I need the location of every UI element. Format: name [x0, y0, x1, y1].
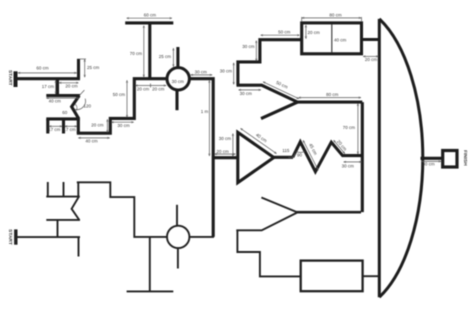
dim 30cm triangle left	[232, 134, 234, 157]
wire: zigzag (mirror)	[72, 182, 80, 220]
wire: fork prong 1	[46, 119, 49, 134]
dim 40cm	[47, 97, 80, 99]
svg-text:20 cm: 20 cm	[216, 149, 229, 154]
svg-text:20 cm: 20 cm	[152, 86, 165, 91]
dim 17cm fork a	[49, 125, 62, 127]
dim 30cm staircase left vert	[233, 63, 235, 84]
svg-text:30 cm: 30 cm	[219, 136, 232, 141]
svg-text:30 cm: 30 cm	[240, 91, 253, 96]
wire: lower funnel bottom diagonal	[236, 212, 297, 230]
wire: 30cm circle to corner	[190, 79, 214, 237]
dim 20cm step	[106, 120, 108, 133]
wire: zigzag 120/60 bend	[72, 96, 80, 134]
svg-text:START: START	[7, 229, 13, 245]
wire: second line (mirror)	[46, 219, 80, 221]
dim 1m	[208, 81, 210, 156]
wire: 40cm bottom run	[77, 79, 167, 134]
svg-text:30 cm: 30 cm	[342, 163, 355, 168]
svg-text:17 cm: 17 cm	[42, 84, 55, 89]
dim 40cm bottom	[79, 137, 110, 139]
svg-text:20 cm: 20 cm	[365, 57, 378, 62]
dim 25cm circle stub	[172, 48, 174, 66]
dim 30cm step	[112, 121, 134, 123]
wire: fork prong 2 (mirror)	[63, 182, 65, 197]
svg-text:40 cm: 40 cm	[85, 139, 98, 144]
wire: 25cm stub above circle	[176, 47, 179, 68]
dim 60cm start	[18, 72, 77, 74]
wire: circle to riser (mirror)	[190, 236, 214, 238]
start terminal bar (mirror)	[14, 229, 17, 244]
wire: staircase lower (mirror)	[237, 230, 301, 276]
svg-text:17 cm: 17 cm	[48, 127, 61, 132]
svg-text:80 cm: 80 cm	[326, 92, 339, 97]
wire: 20cm into triangle	[213, 156, 237, 159]
dim 30cm staircase upper vert	[255, 41, 257, 61]
dim 50cm funnel diagonal	[263, 82, 299, 99]
dim 30cm staircase bottom	[239, 89, 261, 91]
svg-text:17 cm: 17 cm	[63, 127, 76, 132]
process box 80x40	[302, 23, 362, 54]
svg-text:20 cm: 20 cm	[308, 30, 321, 35]
wire: upper funnel lower diagonal	[261, 102, 298, 119]
svg-text:60 cm: 60 cm	[36, 66, 49, 71]
svg-text:30 cm: 30 cm	[242, 44, 255, 49]
dim 20cm resistor tail	[334, 140, 345, 153]
svg-text:20 cm: 20 cm	[91, 123, 104, 128]
wire: fork line (mirror)	[46, 196, 80, 198]
dim 60cm top	[127, 17, 172, 19]
wire: fork prong 1 (mirror)	[47, 182, 49, 197]
dim 45cm resistor	[303, 141, 318, 171]
dimension annotations	[18, 17, 441, 170]
dim 50cm riser	[126, 81, 128, 118]
wire: 70cm right riser	[361, 102, 364, 212]
wire: stub below circle	[175, 90, 178, 110]
circle wheel 30cm	[167, 68, 189, 90]
wire: box to drum (mirror)	[363, 275, 379, 277]
wire: 70cm drop from top bar	[148, 23, 151, 79]
svg-text:80 cm: 80 cm	[329, 12, 342, 17]
process box (mirror)	[301, 261, 363, 292]
svg-text:60: 60	[62, 110, 68, 115]
svg-text:30 cm: 30 cm	[195, 70, 208, 75]
svg-text:30 cm: 30 cm	[172, 79, 185, 84]
wire: 30cm to finish	[421, 157, 443, 160]
top bar 60cm	[125, 21, 173, 24]
svg-text:60 cm: 60 cm	[144, 13, 157, 18]
svg-text:50 cm: 50 cm	[278, 29, 291, 34]
dim 20cm box to drum	[363, 55, 378, 57]
svg-text:40 cm: 40 cm	[255, 132, 268, 143]
svg-text:FINISH: FINISH	[462, 150, 468, 166]
svg-text:20 cm: 20 cm	[65, 84, 78, 89]
lower mirrored structure (thin)	[16, 182, 379, 292]
wire: lower funnel output (mirror 80cm)	[297, 211, 362, 214]
wire: staircase upper	[238, 40, 301, 85]
svg-text:90: 90	[297, 153, 303, 158]
wire: start line (mirror)	[16, 236, 80, 238]
svg-text:30 cm: 30 cm	[220, 68, 233, 73]
svg-text:50 cm: 50 cm	[113, 92, 126, 97]
bottom bar (mirror)	[127, 290, 174, 292]
finish box	[443, 151, 457, 168]
dim 17cm fork b	[65, 125, 77, 127]
wire: fork prong 2	[62, 119, 65, 134]
angle 60 arc	[75, 104, 77, 110]
svg-text:20 cm: 20 cm	[137, 86, 150, 91]
wire: stub (mirror)	[57, 220, 59, 237]
svg-text:1 m: 1 m	[201, 109, 209, 114]
dim 70cm	[143, 26, 145, 77]
dim 30cm finish	[422, 160, 441, 162]
start terminal bar	[14, 71, 18, 87]
svg-text:70 cm: 70 cm	[130, 51, 143, 56]
wire: fork line	[46, 117, 80, 120]
dim 20cm before triangle	[215, 153, 236, 155]
svg-text:25 cm: 25 cm	[87, 65, 100, 70]
dim 40cm triangle hyp	[241, 129, 277, 154]
wire: lower funnel top diagonal	[261, 198, 297, 213]
wire: 60cm start line	[16, 77, 81, 80]
wire: 40cm second line	[46, 94, 80, 97]
angle 90 arc	[296, 151, 305, 152]
wire: 20cm box to drum	[362, 38, 379, 41]
wire: stub below circle (mirror)	[177, 248, 179, 269]
circle wheel (mirror)	[167, 226, 189, 248]
svg-text:25 cm: 25 cm	[159, 54, 172, 59]
wire: 25cm stub down (mirror)	[78, 237, 80, 256]
dim 20cm	[59, 82, 78, 84]
svg-text:40 cm: 40 cm	[49, 99, 62, 104]
dim 20cm 20cm pair	[136, 85, 167, 87]
dim 80cm box	[302, 17, 361, 19]
wire: upper funnel top diagonal 50cm	[237, 85, 298, 102]
wire: drop to bottom bar (mirror)	[149, 237, 151, 291]
svg-text:30 cm: 30 cm	[422, 161, 435, 166]
svg-text:115: 115	[282, 148, 290, 153]
box divider	[331, 24, 333, 52]
wire: 17cm drop stub	[56, 79, 59, 96]
svg-text:45 cm: 45 cm	[308, 143, 318, 156]
svg-text:40 cm: 40 cm	[334, 38, 347, 43]
dim 20cm box inner	[305, 25, 307, 38]
drum flat edge	[378, 19, 381, 297]
angle 120 arc	[75, 99, 85, 110]
dim 80cm funnel out	[299, 97, 361, 99]
wire: 80cm upper funnel output	[297, 101, 363, 104]
wire: stub above circle (mirror)	[176, 205, 178, 226]
svg-text:120: 120	[84, 103, 92, 108]
dim 30cm resistor out	[344, 161, 362, 163]
dim 50cm staircase top	[261, 34, 300, 36]
svg-text:30 cm: 30 cm	[117, 123, 130, 128]
wire: bottom run (mirror)	[77, 182, 167, 237]
dim 17cm	[55, 81, 57, 94]
dim 70cm right riser	[357, 104, 359, 154]
drum arc	[379, 19, 423, 297]
angle 115 arc	[288, 153, 295, 158]
wire: 25cm stub up	[77, 59, 80, 79]
op-amp triangle	[238, 132, 274, 182]
dim 30cm circle right	[191, 74, 212, 76]
resistor zigzag	[293, 142, 363, 172]
svg-text:70 cm: 70 cm	[343, 125, 356, 130]
dim 25cm stub	[84, 60, 86, 78]
wire: 20cm triangle output	[274, 156, 293, 159]
svg-text:START: START	[7, 70, 13, 86]
